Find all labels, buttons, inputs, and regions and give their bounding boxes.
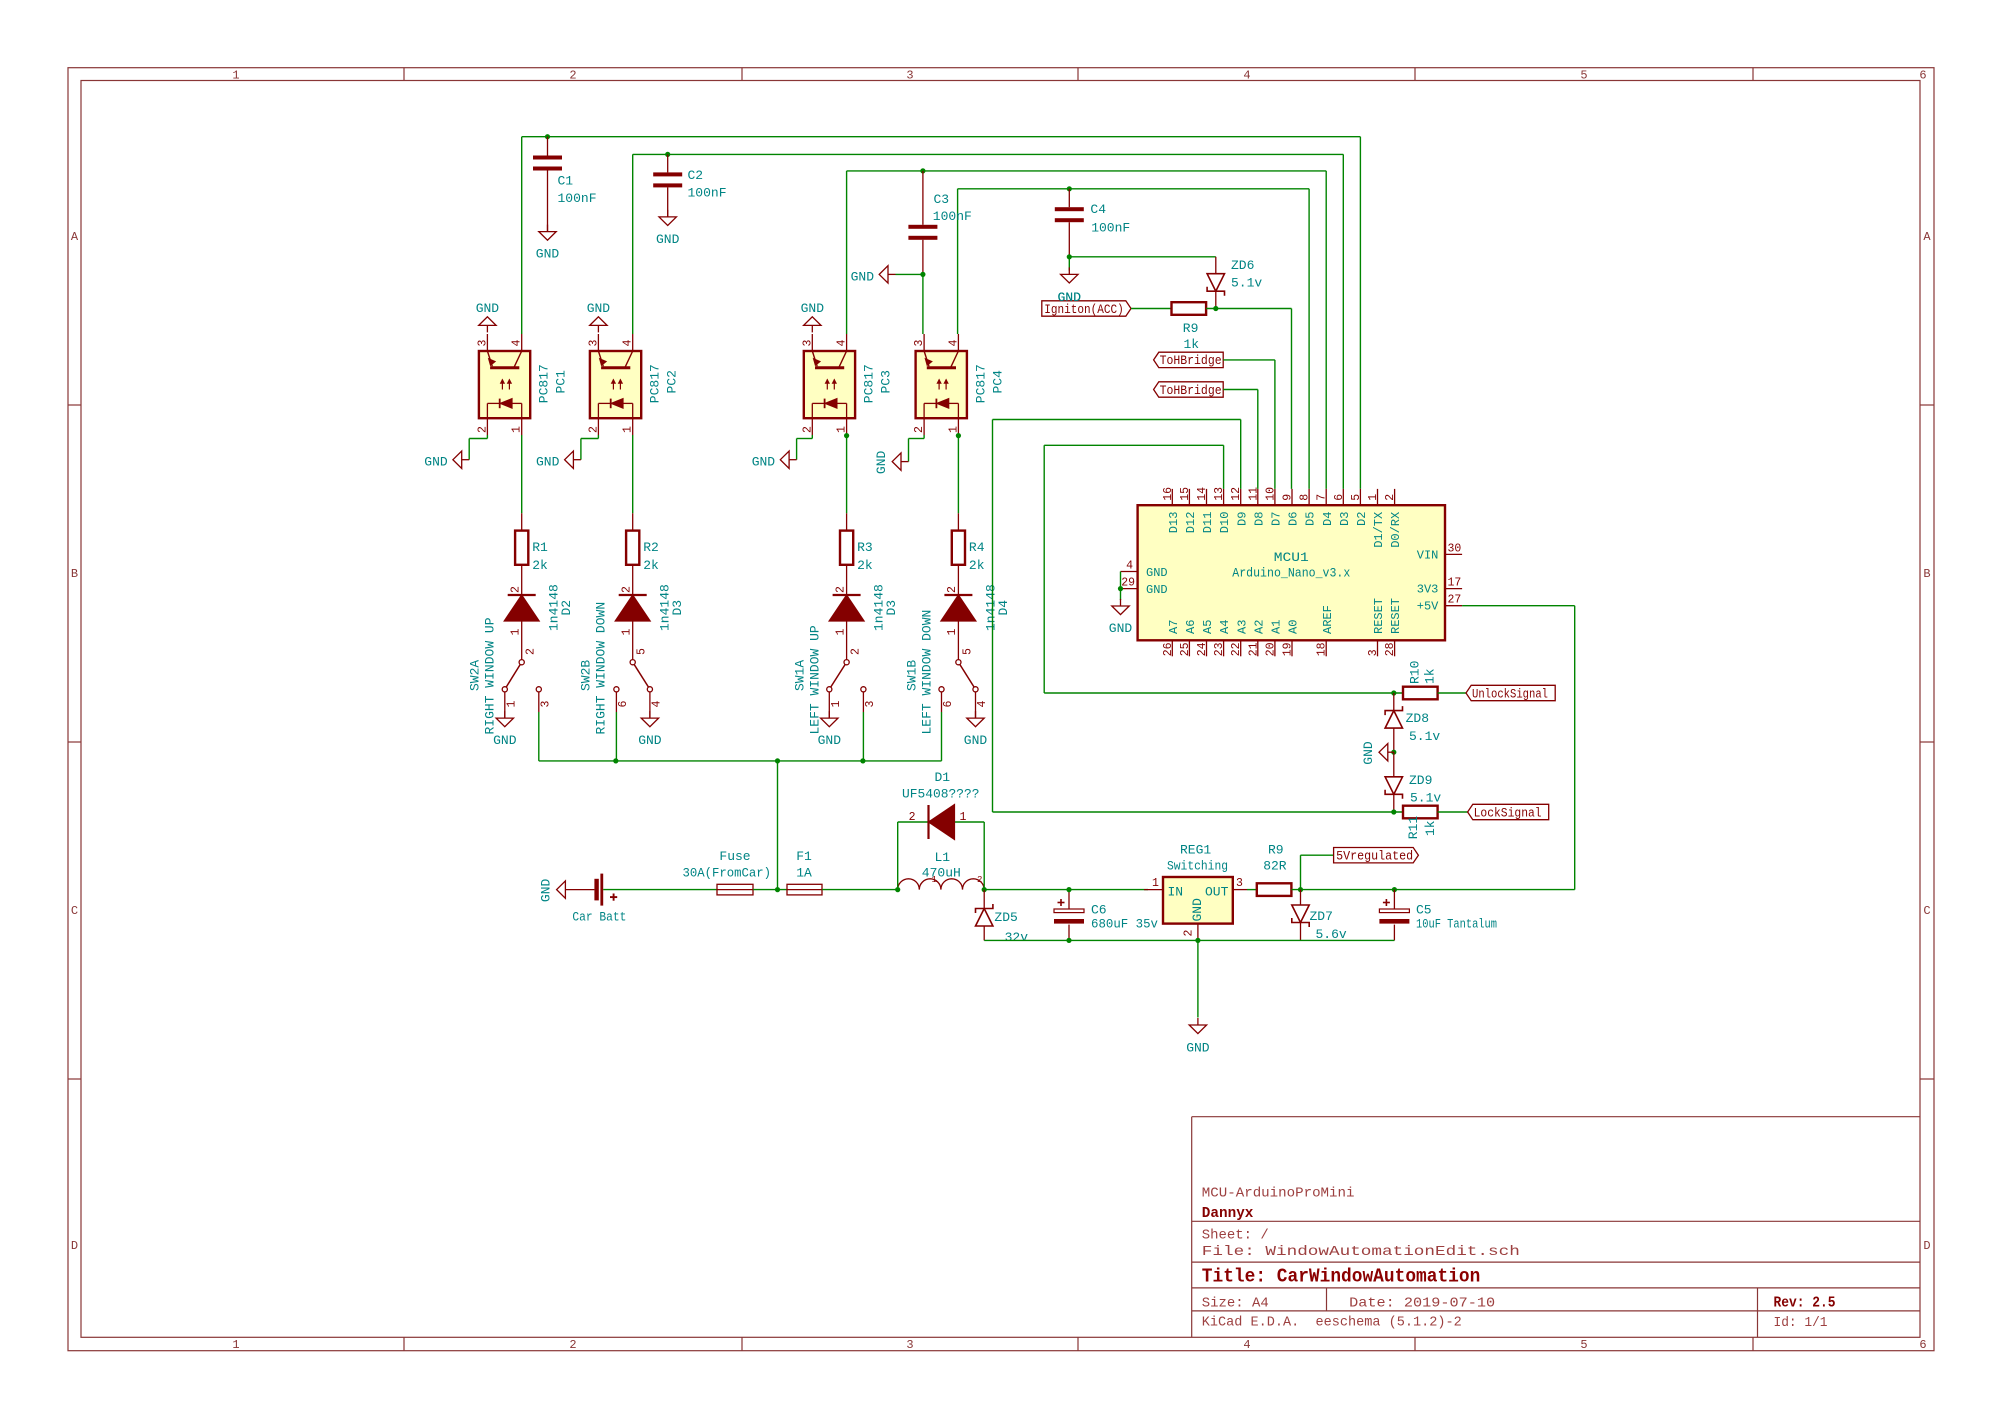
ground C2: [667, 210, 669, 217]
svg-text:D3: D3: [884, 600, 899, 616]
svg-text:5.1v: 5.1v: [1409, 729, 1440, 744]
svg-text:LEFT WINDOW DOWN: LEFT WINDOW DOWN: [919, 610, 934, 735]
svg-text:GND: GND: [538, 878, 553, 902]
svg-text:1: 1: [947, 426, 960, 433]
resistor R1: [521, 513, 523, 530]
ground PC2 pin3: [597, 325, 599, 332]
svg-text:D2: D2: [1355, 512, 1369, 526]
wire D9 to LockSignal riser: [1240, 420, 1242, 489]
junction rail SW2B: [613, 758, 618, 763]
svg-text:GND: GND: [587, 301, 611, 316]
junction C4 top: [1067, 186, 1072, 191]
svg-text:19: 19: [1282, 642, 1295, 656]
svg-text:ZD6: ZD6: [1231, 258, 1254, 273]
capacitor C2: [667, 154, 669, 172]
svg-text:Fuse: Fuse: [719, 849, 750, 864]
svg-text:A4: A4: [1218, 620, 1232, 634]
svg-text:ZD9: ZD9: [1409, 773, 1432, 788]
svg-text:ZD7: ZD7: [1310, 909, 1333, 924]
svg-text:8: 8: [1299, 494, 1312, 501]
svg-text:1A: 1A: [796, 866, 812, 881]
svg-text:1: 1: [960, 811, 967, 824]
svg-text:20: 20: [1264, 642, 1277, 656]
svg-text:C6: C6: [1091, 903, 1107, 918]
svg-text:5: 5: [1580, 1338, 1587, 1352]
svg-text:1: 1: [621, 629, 634, 636]
mcu left pins 4 29 GND: [1121, 571, 1138, 573]
svg-text:1: 1: [1367, 494, 1380, 501]
mcu bottom pins: [1171, 640, 1173, 656]
svg-text:AREF: AREF: [1321, 605, 1335, 634]
svg-text:SW2A: SW2A: [468, 660, 483, 691]
hierarchical label 5Vregulated: [1334, 848, 1419, 863]
svg-text:R10: R10: [1408, 661, 1423, 684]
svg-text:3: 3: [801, 340, 814, 347]
ground SW1A: [828, 692, 830, 718]
svg-text:GND: GND: [493, 733, 517, 748]
svg-text:LockSignal: LockSignal: [1474, 806, 1542, 820]
wire ToHBridge1 to D7: [1223, 359, 1275, 361]
frame row ticks left: [68, 404, 81, 406]
svg-text:SW1A: SW1A: [793, 660, 808, 691]
svg-text:28: 28: [1384, 642, 1397, 656]
resistor R10 1k: [1403, 687, 1438, 700]
svg-text:1k: 1k: [1184, 337, 1200, 352]
junction PC4 pin1: [956, 433, 961, 438]
svg-text:3: 3: [587, 340, 600, 347]
svg-text:5: 5: [636, 648, 649, 655]
optocoupler PC1: [479, 351, 530, 418]
inductor L1 470uH: [898, 879, 984, 890]
junction C1 top: [545, 134, 550, 139]
junction unlock/ZD8: [1391, 690, 1396, 695]
svg-text:PC3: PC3: [879, 370, 894, 393]
svg-text:Size: A4: Size: A4: [1202, 1295, 1269, 1311]
svg-text:1: 1: [1152, 877, 1159, 890]
ground PC2 pin2: [573, 459, 581, 461]
wire D1 bypass: [897, 822, 899, 890]
svg-text:2: 2: [587, 426, 600, 433]
svg-text:1: 1: [505, 701, 518, 708]
svg-text:PC817: PC817: [648, 364, 663, 403]
junction ground rail REG1: [1195, 938, 1200, 943]
wire mcu gnd pins: [1120, 572, 1122, 601]
switch SW2A RIGHT WINDOW UP: [519, 660, 524, 665]
junction L1 right: [982, 887, 987, 892]
svg-text:3V3: 3V3: [1417, 583, 1439, 597]
svg-text:D9: D9: [1235, 512, 1249, 526]
svg-text:PC4: PC4: [990, 370, 1005, 394]
svg-text:2: 2: [569, 1338, 576, 1352]
wire rail to fuse junction: [777, 761, 779, 890]
svg-text:GND: GND: [424, 455, 448, 470]
svg-text:16: 16: [1162, 487, 1175, 501]
svg-text:2: 2: [1384, 494, 1397, 501]
svg-text:A0: A0: [1287, 620, 1301, 634]
svg-text:PC1: PC1: [554, 370, 569, 394]
svg-text:3: 3: [1367, 649, 1380, 656]
svg-text:2: 2: [946, 586, 959, 593]
svg-text:D2: D2: [559, 600, 574, 616]
svg-text:1: 1: [510, 629, 523, 636]
ground PC3 pin2: [789, 459, 797, 461]
svg-text:R9: R9: [1183, 321, 1199, 336]
zener ZD5 32v: [983, 890, 985, 909]
svg-text:PC817: PC817: [862, 364, 877, 403]
optocoupler PC4: [916, 351, 967, 418]
mcu MCU1 Arduino_Nano_v3.x: [1138, 505, 1445, 640]
svg-text:680uF 35v: 680uF 35v: [1091, 917, 1158, 932]
svg-text:22: 22: [1230, 642, 1243, 656]
wire R9 to +5V riser: [1291, 889, 1574, 891]
svg-text:+5V: +5V: [1417, 600, 1439, 614]
svg-text:2: 2: [621, 586, 634, 593]
svg-text:11: 11: [1247, 487, 1260, 501]
svg-text:A3: A3: [1235, 620, 1249, 634]
svg-text:IN: IN: [1168, 885, 1184, 900]
switch SW1A LEFT WINDOW UP: [844, 660, 849, 665]
svg-text:D: D: [1923, 1239, 1930, 1253]
svg-text:4: 4: [1126, 560, 1133, 573]
svg-text:A6: A6: [1184, 620, 1198, 634]
wire PC1 pin1 down: [521, 435, 523, 513]
svg-text:C: C: [71, 904, 78, 918]
wire C3 bottom node: [896, 273, 923, 275]
hierarchical label LockSignal: [1468, 804, 1549, 819]
svg-text:D6: D6: [1287, 512, 1301, 526]
svg-text:A: A: [1923, 230, 1931, 244]
ground C3 (left): [888, 273, 896, 275]
svg-text:3: 3: [906, 69, 913, 83]
resistor R4: [957, 513, 959, 530]
svg-text:1k: 1k: [1423, 668, 1438, 684]
wire lock row: [993, 811, 1404, 813]
svg-text:Date: 2019-07-10: Date: 2019-07-10: [1349, 1295, 1495, 1311]
svg-text:4: 4: [622, 340, 635, 347]
svg-text:D8: D8: [1252, 512, 1266, 526]
junction C3 bottom: [920, 272, 925, 277]
wire PC3 pin1 down: [846, 435, 848, 513]
svg-text:1: 1: [622, 426, 635, 433]
svg-text:RESET: RESET: [1372, 598, 1386, 634]
wire C4 top bus: [958, 188, 1310, 190]
svg-text:470uH: 470uH: [922, 866, 961, 881]
ground PC3 pin3: [811, 325, 813, 332]
svg-text:RESET: RESET: [1389, 598, 1403, 634]
hierarchical label UnlockSignal: [1466, 685, 1555, 700]
svg-text:GND: GND: [536, 247, 560, 262]
capacitor C5 10uF Tantalum: [1393, 890, 1395, 909]
svg-text:R11: R11: [1406, 816, 1421, 840]
wire ToHBridge2 to D8: [1223, 389, 1258, 391]
svg-text:24: 24: [1196, 642, 1209, 656]
svg-text:3: 3: [906, 1338, 913, 1352]
wire C1 top bus: [522, 136, 1361, 138]
svg-text:D12: D12: [1184, 512, 1198, 534]
svg-text:Dannyx: Dannyx: [1202, 1206, 1254, 1222]
svg-text:32v: 32v: [1005, 930, 1029, 945]
svg-text:R3: R3: [857, 540, 873, 555]
wire R11 to label: [1438, 811, 1468, 813]
svg-text:GND: GND: [818, 733, 842, 748]
svg-text:21: 21: [1247, 642, 1260, 656]
svg-text:2: 2: [525, 648, 538, 655]
svg-text:GND: GND: [964, 733, 988, 748]
svg-text:2: 2: [569, 69, 576, 83]
resistor R3: [846, 513, 848, 530]
svg-text:100nF: 100nF: [558, 191, 597, 206]
svg-text:MCU1: MCU1: [1274, 550, 1309, 565]
svg-text:30: 30: [1448, 542, 1462, 555]
resistor R9 1k: [1172, 302, 1207, 315]
svg-text:3: 3: [913, 340, 926, 347]
wire F1 to L1: [822, 889, 898, 891]
svg-text:D11: D11: [1201, 512, 1215, 534]
ground PC4 pin2 (vertical text): [901, 461, 909, 463]
svg-text:1: 1: [232, 69, 239, 83]
mcu right pins 30 17 27: [1445, 553, 1462, 555]
svg-text:D4: D4: [996, 600, 1011, 616]
ground battery (left): [565, 889, 594, 891]
svg-text:2k: 2k: [532, 558, 548, 573]
svg-text:12: 12: [1230, 487, 1243, 501]
svg-text:GND: GND: [1361, 741, 1376, 765]
svg-text:R1: R1: [532, 540, 548, 555]
wire Igniton to R9: [1131, 308, 1172, 310]
diode D3 1n4148: [619, 594, 647, 596]
svg-text:6: 6: [1919, 69, 1926, 83]
svg-text:L1: L1: [935, 850, 951, 865]
svg-text:Igniton(ACC): Igniton(ACC): [1044, 303, 1124, 317]
ground C4: [1068, 267, 1070, 274]
svg-text:2: 2: [1183, 930, 1196, 937]
svg-text:2: 2: [850, 648, 863, 655]
svg-text:D1/TX: D1/TX: [1372, 512, 1386, 548]
svg-text:GND: GND: [1186, 1041, 1210, 1056]
wire PC4 pin1 down: [957, 435, 959, 513]
svg-text:100nF: 100nF: [933, 209, 972, 224]
svg-text:10uF Tantalum: 10uF Tantalum: [1416, 917, 1497, 932]
svg-text:B: B: [1923, 567, 1930, 581]
svg-text:29: 29: [1121, 577, 1135, 590]
svg-text:2: 2: [909, 811, 916, 824]
svg-text:PC817: PC817: [537, 364, 552, 403]
frame row ticks right: [1920, 404, 1934, 406]
wire R9 to D6: [1206, 308, 1291, 310]
svg-text:13: 13: [1213, 487, 1226, 501]
optocoupler PC2: [590, 351, 641, 418]
svg-text:GND: GND: [752, 455, 776, 470]
wire C2 top bus: [633, 153, 1344, 155]
junction lock/ZD9: [1391, 809, 1396, 814]
ground SW2A: [504, 692, 506, 718]
junction C2 top: [665, 152, 670, 157]
svg-text:ZD5: ZD5: [994, 910, 1017, 925]
svg-text:15: 15: [1179, 487, 1192, 501]
svg-text:4: 4: [947, 340, 960, 347]
svg-text:100nF: 100nF: [688, 186, 727, 201]
ground REG1: [1197, 1018, 1199, 1025]
svg-text:3: 3: [476, 340, 489, 347]
svg-text:5.1v: 5.1v: [1231, 276, 1262, 291]
svg-text:RIGHT WINDOW DOWN: RIGHT WINDOW DOWN: [594, 602, 609, 735]
junction PC3 pin1: [844, 433, 849, 438]
svg-text:F1: F1: [796, 849, 812, 864]
svg-text:10: 10: [1264, 487, 1277, 501]
svg-text:1: 1: [830, 701, 843, 708]
svg-text:2: 2: [510, 586, 523, 593]
svg-text:GND: GND: [851, 269, 875, 284]
svg-text:C4: C4: [1090, 202, 1106, 217]
wire battery to fuse: [603, 889, 717, 891]
svg-text:7: 7: [1316, 494, 1329, 501]
wire 5Vregulated stub: [1300, 855, 1302, 889]
svg-text:Car Batt: Car Batt: [572, 910, 626, 925]
junction ZD6: [1213, 306, 1218, 311]
svg-text:Id: 1/1: Id: 1/1: [1774, 1315, 1828, 1331]
svg-text:R4: R4: [969, 540, 985, 555]
svg-text:Switching: Switching: [1167, 859, 1228, 874]
svg-text:GND: GND: [874, 450, 889, 474]
svg-text:A2: A2: [1252, 620, 1266, 634]
svg-text:3: 3: [539, 701, 552, 708]
svg-text:4: 4: [1243, 69, 1250, 83]
svg-text:26: 26: [1162, 642, 1175, 656]
wire fuse to F1: [753, 889, 787, 891]
svg-text:D10: D10: [1218, 512, 1232, 534]
svg-text:2: 2: [977, 875, 982, 885]
diode D3 1n4148: [833, 594, 861, 596]
wire PC2 pin1 down: [632, 435, 634, 513]
junction L1 left: [895, 887, 900, 892]
svg-text:R9: R9: [1268, 843, 1284, 858]
svg-text:A1: A1: [1270, 620, 1284, 634]
wire PC4 pin2 to ground: [923, 435, 925, 439]
svg-text:17: 17: [1448, 577, 1462, 590]
svg-text:6: 6: [1919, 1338, 1926, 1352]
svg-text:3: 3: [1236, 877, 1243, 890]
svg-text:82R: 82R: [1263, 859, 1287, 874]
svg-text:UnlockSignal: UnlockSignal: [1472, 687, 1548, 701]
capacitor C1: [547, 137, 549, 156]
svg-text:GND: GND: [638, 733, 662, 748]
svg-text:ZD8: ZD8: [1406, 711, 1429, 726]
capacitor C6 680uF: [1068, 890, 1070, 909]
ground PC1 pin2: [462, 459, 470, 461]
ground PC1 pin3: [486, 325, 488, 332]
svg-text:SW1B: SW1B: [904, 660, 919, 691]
wire PC1 pin2 to ground: [486, 435, 488, 439]
svg-text:C: C: [1923, 904, 1930, 918]
svg-text:1: 1: [834, 629, 847, 636]
svg-text:D3: D3: [1338, 512, 1352, 526]
svg-text:C2: C2: [688, 168, 704, 183]
wire SW1B to rail: [941, 692, 943, 712]
svg-text:A5: A5: [1201, 620, 1215, 634]
svg-text:9: 9: [1282, 494, 1295, 501]
mcu top pins: [1171, 489, 1173, 505]
svg-text:R2: R2: [643, 540, 659, 555]
hierarchical label Igniton(ACC): [1042, 301, 1131, 316]
wire L1 to REG1: [984, 889, 1148, 891]
svg-text:1: 1: [511, 426, 524, 433]
junction mcu gnd: [1118, 586, 1123, 591]
svg-text:3: 3: [864, 701, 877, 708]
resistor R11 1k: [1403, 806, 1438, 819]
ground MCU: [1120, 599, 1122, 606]
wire lower ground rail: [984, 939, 1394, 941]
wire PC3 pin2 to ground: [811, 435, 813, 439]
title block: [1191, 1117, 1193, 1338]
svg-text:6: 6: [1333, 494, 1346, 501]
junction C3 top: [920, 168, 925, 173]
regulator REG1 Switching: [1144, 889, 1163, 891]
svg-text:5Vregulated: 5Vregulated: [1336, 850, 1413, 864]
svg-text:File: WindowAutomationEdit.sch: File: WindowAutomationEdit.sch: [1202, 1244, 1520, 1260]
svg-text:30A(FromCar): 30A(FromCar): [683, 866, 772, 881]
svg-text:4: 4: [650, 701, 663, 708]
svg-text:C5: C5: [1416, 903, 1432, 918]
svg-text:4: 4: [976, 701, 989, 708]
svg-text:2: 2: [476, 426, 489, 433]
wire SW1A to rail: [862, 692, 864, 712]
wire +5V from pin27: [1462, 605, 1575, 607]
svg-text:VIN: VIN: [1417, 548, 1439, 562]
svg-text:C3: C3: [934, 192, 950, 207]
svg-text:GND: GND: [1146, 583, 1168, 597]
svg-text:1: 1: [232, 1338, 239, 1352]
wire R10 to label: [1438, 692, 1466, 694]
svg-text:UF5408????: UF5408????: [902, 787, 980, 802]
svg-text:4: 4: [836, 340, 849, 347]
junction C5 top: [1392, 887, 1397, 892]
svg-text:Arduino_Nano_v3.x: Arduino_Nano_v3.x: [1232, 566, 1350, 581]
svg-text:Rev: 2.5: Rev: 2.5: [1774, 1296, 1836, 1312]
svg-text:GND: GND: [1058, 290, 1082, 305]
wire REG1 ground drop: [1197, 940, 1199, 1017]
fuse 30A(FromCar): [717, 884, 753, 895]
wire C3 top bus: [847, 170, 1327, 172]
wire unlock row: [1044, 692, 1403, 694]
svg-text:OUT: OUT: [1205, 885, 1229, 900]
wire REG1 out to R9: [1247, 889, 1257, 891]
svg-text:5: 5: [1580, 69, 1587, 83]
ground SW2B: [649, 692, 651, 718]
svg-text:RIGHT WINDOW UP: RIGHT WINDOW UP: [483, 617, 498, 734]
junction ZD8 ZD9 gnd: [1391, 750, 1396, 755]
svg-text:27: 27: [1448, 594, 1462, 607]
svg-text:C1: C1: [558, 174, 574, 189]
junction C4 bottom: [1067, 254, 1072, 259]
zener ZD9 5.1v: [1393, 752, 1395, 777]
diode D1 UF5408: [927, 805, 929, 839]
hierarchical label ToHBridge 1: [1154, 352, 1224, 367]
svg-text:1: 1: [836, 426, 849, 433]
wire switch common rail: [539, 760, 942, 762]
svg-text:A: A: [71, 230, 79, 244]
svg-text:D5: D5: [1304, 512, 1318, 526]
svg-text:GND: GND: [656, 232, 680, 247]
svg-text:1: 1: [946, 629, 959, 636]
svg-text:5: 5: [1350, 494, 1363, 501]
svg-text:MCU-ArduinoProMini: MCU-ArduinoProMini: [1202, 1186, 1355, 1202]
ground between ZD8 ZD9 (vertical text): [1388, 751, 1394, 753]
svg-text:GND: GND: [801, 301, 825, 316]
svg-text:D0/RX: D0/RX: [1389, 512, 1403, 548]
ground SW1B: [975, 692, 977, 718]
svg-text:2k: 2k: [857, 558, 873, 573]
wire SW2A to rail: [538, 692, 540, 712]
